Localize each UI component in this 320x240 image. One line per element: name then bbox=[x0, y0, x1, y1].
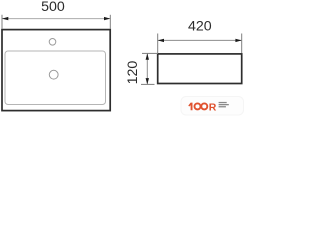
logo wordmark 100R bbox=[188, 101, 216, 113]
svg-text:420: 420 bbox=[188, 18, 212, 34]
logo card background bbox=[181, 97, 244, 116]
basin top view outer rim bbox=[2, 30, 110, 111]
logo tagline line 3 bbox=[219, 106, 226, 107]
basin bowl inner rect bbox=[5, 51, 106, 105]
arrow right 420 bbox=[235, 39, 241, 42]
svg-text:R: R bbox=[209, 101, 217, 113]
logo tagline line 1 bbox=[219, 102, 227, 103]
svg-text:120: 120 bbox=[125, 61, 141, 85]
dimension line 120 bbox=[146, 54, 148, 84]
side view panel bbox=[158, 54, 242, 84]
svg-text:500: 500 bbox=[41, 0, 65, 15]
extension line right of 420 dimension bbox=[241, 34, 243, 54]
faucet hole bbox=[49, 39, 56, 46]
extension line bottom of 120 dimension bbox=[141, 83, 155, 85]
logo tagline line 2 bbox=[219, 104, 229, 105]
label 500 bbox=[41, 0, 65, 15]
extension line top of 120 dimension bbox=[142, 52, 158, 54]
arrow right 500 bbox=[104, 17, 110, 20]
dimension line 420 bbox=[158, 39, 241, 41]
drain hole bbox=[49, 70, 58, 79]
label 120 (rotated) bbox=[125, 61, 141, 85]
label 420 bbox=[188, 18, 212, 34]
arrow top 120 bbox=[146, 53, 149, 59]
extension line right of 500 dimension bbox=[109, 15, 111, 29]
dimension line 500 bbox=[3, 18, 110, 20]
extension line left of 500 dimension bbox=[1, 15, 3, 29]
arrow left 420 bbox=[158, 39, 164, 42]
arrow left 500 bbox=[2, 17, 8, 20]
arrow bottom 120 bbox=[146, 78, 149, 84]
extension line left of 420 dimension bbox=[157, 34, 159, 54]
